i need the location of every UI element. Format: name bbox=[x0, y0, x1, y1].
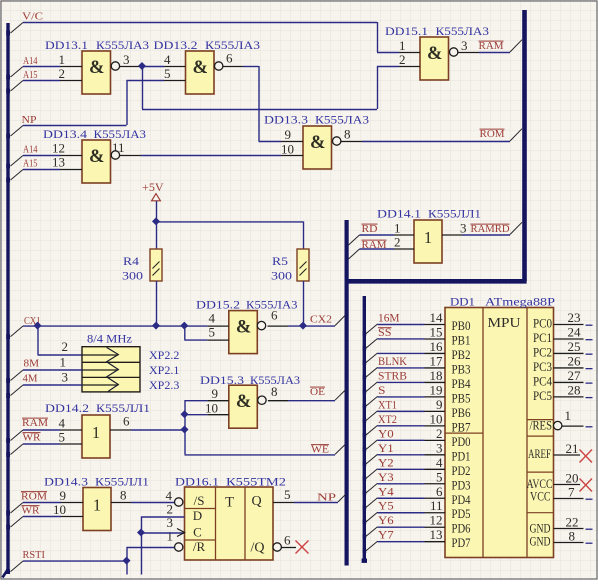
junction DD14.2 output node bbox=[181, 426, 189, 434]
junction CX2 at R5 bbox=[299, 322, 307, 330]
svg-text:4: 4 bbox=[59, 416, 66, 431]
wire net A15 to DD13.4 pin13 bbox=[11, 170, 61, 181]
bus: right memory-control bus bbox=[347, 10, 527, 566]
svg-text:17: 17 bbox=[430, 353, 444, 368]
svg-text:К555ЛА3: К555ЛА3 bbox=[96, 38, 149, 52]
svg-text:22: 22 bbox=[566, 515, 579, 530]
svg-text:28: 28 bbox=[568, 382, 581, 397]
svg-text:10: 10 bbox=[281, 142, 294, 157]
svg-text:D: D bbox=[193, 508, 202, 523]
inversion bubble DD13.1 output bbox=[111, 62, 119, 70]
wire net DD13.2 output to DD13.3 pin9 bbox=[243, 66, 281, 142]
gate DD13.2 (K555LA3 NAND) bbox=[186, 51, 215, 94]
wire net A14 bbox=[11, 67, 61, 78]
svg-text:STRB: STRB bbox=[378, 370, 407, 382]
wire net CX1 bbox=[11, 326, 208, 355]
wire MCU pin 8 GND bbox=[554, 542, 593, 545]
inversion bubble DD15.3 output bbox=[258, 396, 266, 404]
svg-text:15: 15 bbox=[430, 324, 443, 339]
svg-text:2: 2 bbox=[59, 66, 66, 81]
pin stubs DD14.1 bbox=[394, 235, 462, 249]
svg-text:DD15.1: DD15.1 bbox=[385, 24, 428, 38]
wire net RSTI to DD16.1 /R bbox=[11, 547, 175, 575]
svg-text:ROM: ROM bbox=[480, 128, 505, 140]
svg-text:3: 3 bbox=[460, 221, 467, 236]
inversion bubble DD13.3 output bbox=[333, 137, 341, 145]
svg-text:/S: /S bbox=[194, 493, 205, 508]
svg-text:Y7: Y7 bbox=[378, 530, 394, 542]
resistor R5 bbox=[297, 249, 309, 281]
svg-text:16M: 16M bbox=[378, 313, 400, 325]
svg-text:AREF: AREF bbox=[528, 446, 551, 461]
wire net RAMRD bbox=[462, 222, 522, 235]
pin numbers DD15.2 bbox=[209, 308, 279, 340]
svg-text:XT2: XT2 bbox=[378, 414, 397, 426]
pin numbers DD13.3 bbox=[281, 127, 351, 157]
pin stubs DD13.3 bbox=[281, 142, 362, 156]
svg-text:1: 1 bbox=[92, 423, 100, 442]
wire MCU pin 21 AREF bbox=[554, 454, 581, 456]
svg-text:К555ЛА3: К555ЛА3 bbox=[94, 127, 147, 141]
MCU left pin wires and bus entries bbox=[366, 324, 445, 551]
svg-text:3: 3 bbox=[436, 440, 443, 455]
junction D-C tie bbox=[137, 529, 145, 537]
wire net from DD13.1 pin3 to DD13.2 pin4 and DD15.1 pin2 bbox=[142, 66, 399, 110]
svg-text:DD13.3: DD13.3 bbox=[264, 113, 308, 127]
gate DD13.3 (K555LA3 NAND) bbox=[303, 126, 332, 169]
svg-text:R5: R5 bbox=[272, 254, 288, 268]
wire MCU pin 1 /RES bbox=[562, 425, 593, 428]
svg-text:PB0: PB0 bbox=[452, 318, 471, 333]
svg-text:NP: NP bbox=[22, 114, 37, 126]
inversion bubble DD15.1 output bbox=[450, 48, 458, 56]
inversion bubble DD13.2 output bbox=[215, 62, 223, 70]
wire net WR to DD14.2 pin5 bbox=[11, 444, 61, 455]
svg-text:6: 6 bbox=[436, 484, 443, 499]
wire net NP from DD16.1 Q output bbox=[273, 494, 346, 502]
svg-text:DD13.4: DD13.4 bbox=[43, 127, 87, 141]
MCU DD1 ATmega88P body bbox=[445, 308, 554, 558]
svg-text:PD7: PD7 bbox=[452, 535, 471, 550]
svg-text:Y1: Y1 bbox=[378, 443, 394, 455]
pin stubs DD13.2 bbox=[164, 67, 243, 81]
svg-text:11: 11 bbox=[430, 498, 443, 513]
svg-text:26: 26 bbox=[568, 353, 582, 368]
junction CX1 at DD15.2 pin5 drop bbox=[180, 322, 188, 330]
svg-text:&: & bbox=[236, 317, 251, 337]
svg-text:DD14.2: DD14.2 bbox=[45, 401, 89, 415]
svg-text:8/4 MHz: 8/4 MHz bbox=[87, 332, 132, 346]
svg-text:&: & bbox=[310, 133, 325, 153]
inversion bubble DD16.1 /Q output bbox=[273, 543, 281, 551]
wire net NP to DD13.2 pin5 bbox=[11, 80, 165, 136]
svg-text:8M: 8M bbox=[24, 358, 40, 370]
inversion bubble DD15.2 output bbox=[257, 321, 265, 329]
pin numbers DD15.1 bbox=[399, 38, 468, 67]
svg-text:К555ЛА3: К555ЛА3 bbox=[315, 113, 369, 127]
svg-text:/RES: /RES bbox=[530, 418, 553, 433]
MCU left net labels 16M SS BLNK STRB S XT1 XT2 Y0-Y7 bbox=[378, 313, 408, 542]
svg-text:DD13.2: DD13.2 bbox=[154, 38, 198, 52]
wire net CX2 bbox=[288, 316, 345, 327]
pin numbers DD16.1 bbox=[166, 487, 292, 548]
svg-text:DD14.1: DD14.1 bbox=[377, 207, 421, 221]
svg-text:PC3: PC3 bbox=[533, 359, 552, 374]
svg-text:1: 1 bbox=[424, 228, 432, 247]
svg-text:5: 5 bbox=[436, 469, 443, 484]
svg-text:6: 6 bbox=[123, 414, 130, 429]
svg-text:4: 4 bbox=[209, 311, 216, 326]
svg-text:Q: Q bbox=[251, 494, 261, 509]
svg-text:PD2: PD2 bbox=[452, 463, 471, 478]
junction +5V at R4 top bbox=[152, 217, 160, 225]
svg-text:Y2: Y2 bbox=[378, 457, 394, 469]
svg-text:&: & bbox=[236, 392, 251, 412]
svg-text:PC0: PC0 bbox=[533, 316, 552, 331]
svg-text:14: 14 bbox=[430, 310, 444, 325]
svg-text:NP: NP bbox=[317, 492, 336, 504]
svg-text:2: 2 bbox=[394, 235, 401, 250]
svg-text:К555ТМ2: К555ТМ2 bbox=[226, 475, 286, 489]
pin numbers DD13.4 bbox=[52, 140, 125, 170]
svg-text:6: 6 bbox=[271, 308, 278, 323]
svg-text:PC1: PC1 bbox=[533, 330, 552, 345]
svg-text:PB7: PB7 bbox=[452, 419, 471, 434]
gate DD14.1 (K555LL1 OR) bbox=[414, 220, 442, 263]
pin stubs DD14.2 bbox=[60, 430, 131, 444]
svg-text:PD4: PD4 bbox=[452, 492, 471, 507]
svg-text:3: 3 bbox=[461, 38, 468, 53]
svg-text:4: 4 bbox=[164, 52, 171, 67]
wire net DD13.4 output to DD13.3 pin10 bbox=[141, 155, 281, 157]
wire MCU pin 20 AVCC bbox=[554, 484, 581, 486]
wire R5 bottom to CX2 node bbox=[303, 281, 305, 326]
svg-text:ROM: ROM bbox=[21, 491, 47, 503]
gate DD15.2 (K555LA3 NAND) bbox=[229, 311, 257, 354]
svg-text:1: 1 bbox=[394, 221, 401, 236]
svg-text:20: 20 bbox=[566, 471, 579, 486]
svg-text:PD6: PD6 bbox=[452, 521, 471, 536]
svg-text:DD13.1: DD13.1 bbox=[45, 38, 88, 52]
svg-text:К555ЛЛ1: К555ЛЛ1 bbox=[428, 207, 481, 221]
power symbol +5V bbox=[142, 182, 164, 201]
pin numbers XP2 bbox=[60, 339, 69, 385]
pin numbers DD14.1 bbox=[394, 221, 467, 250]
svg-text:27: 27 bbox=[568, 368, 582, 383]
pin numbers DD13.1 bbox=[59, 52, 130, 81]
svg-text:PB6: PB6 bbox=[452, 405, 471, 420]
svg-text:300: 300 bbox=[271, 269, 292, 283]
resistor R4 bbox=[150, 249, 162, 281]
pin stubs DD15.2 bbox=[207, 326, 288, 340]
svg-text:9: 9 bbox=[436, 397, 443, 412]
svg-text:&: & bbox=[427, 44, 442, 64]
svg-text:4M: 4M bbox=[23, 373, 38, 385]
svg-text:PD0: PD0 bbox=[452, 434, 471, 449]
svg-text:XP2.1: XP2.1 bbox=[149, 363, 179, 377]
svg-text:25: 25 bbox=[568, 339, 581, 354]
svg-text:PB2: PB2 bbox=[452, 347, 471, 362]
wire MCU pin 7 VCC bbox=[554, 498, 593, 501]
bus: MCU port bus bbox=[362, 296, 367, 563]
svg-text:К555ЛА3: К555ЛА3 bbox=[205, 38, 260, 52]
svg-text:300: 300 bbox=[122, 269, 143, 283]
junction RSTI at /R drop bbox=[123, 557, 131, 565]
pin stubs DD13.1 bbox=[60, 67, 141, 81]
svg-text:Y0: Y0 bbox=[378, 428, 394, 440]
MCU right pin names /RES AREF AVCC VCC GND GND bbox=[527, 418, 553, 549]
svg-text:C: C bbox=[193, 525, 202, 540]
connector XP2 8/4 MHz block bbox=[82, 347, 140, 392]
svg-text:S: S bbox=[378, 385, 386, 397]
svg-text:1: 1 bbox=[399, 38, 406, 53]
svg-text:WR: WR bbox=[22, 505, 41, 517]
svg-text:Y3: Y3 bbox=[378, 472, 394, 484]
svg-text:1: 1 bbox=[565, 408, 572, 423]
svg-text:23: 23 bbox=[568, 310, 581, 325]
pin stubs DD15.3 bbox=[207, 401, 288, 415]
svg-text:V/C: V/C bbox=[22, 11, 43, 23]
junction at DD13.1 output node bbox=[138, 62, 146, 70]
svg-text:RAM: RAM bbox=[22, 417, 48, 429]
svg-text:10: 10 bbox=[205, 401, 218, 416]
gate DD14.3 (K555LL1 OR) bbox=[83, 488, 111, 531]
MCU right pin names PC0-PC5 bbox=[533, 316, 552, 403]
svg-text:A14: A14 bbox=[23, 144, 38, 156]
svg-text:5: 5 bbox=[164, 66, 171, 81]
pin numbers DD14.3 bbox=[53, 488, 127, 518]
svg-text:RAMRD: RAMRD bbox=[471, 223, 510, 235]
wire net ROM to DD14.3 pin9 bbox=[11, 503, 62, 514]
svg-text:1: 1 bbox=[60, 355, 67, 370]
gate DD13.4 (K555LA3 NAND) bbox=[82, 140, 111, 183]
svg-text:&: & bbox=[89, 58, 104, 78]
pin labels XP2.2 XP2.1 XP2.3 bbox=[149, 348, 179, 392]
svg-text:A14: A14 bbox=[23, 55, 38, 67]
pin numbers DD14.2 bbox=[59, 414, 131, 445]
no-connect cross at AVCC bbox=[580, 479, 593, 492]
svg-text:5: 5 bbox=[59, 430, 66, 445]
wire net OE bbox=[288, 390, 345, 400]
wire net A15 bbox=[11, 81, 61, 92]
svg-text:12: 12 bbox=[52, 141, 65, 156]
junction DD15.3 pin10 tie bbox=[181, 410, 189, 418]
svg-text:RD: RD bbox=[362, 223, 378, 235]
svg-text:8: 8 bbox=[569, 529, 576, 544]
pin stubs DD14.3 bbox=[61, 503, 131, 517]
svg-text:1: 1 bbox=[93, 496, 101, 515]
svg-text:&: & bbox=[89, 147, 104, 167]
wire net ROM output bbox=[362, 129, 522, 142]
svg-text:DD14.3: DD14.3 bbox=[44, 475, 88, 489]
svg-text:PC5: PC5 bbox=[533, 388, 552, 403]
svg-text:VCC: VCC bbox=[530, 489, 551, 504]
svg-text:DD16.1: DD16.1 bbox=[175, 475, 219, 489]
svg-text:24: 24 bbox=[568, 324, 582, 339]
svg-text:WE: WE bbox=[311, 444, 329, 456]
pin stubs DD13.4 bbox=[60, 156, 141, 170]
MCU left pin names PB0-PB7 PD0-PD7 bbox=[452, 318, 471, 550]
svg-text:Y5: Y5 bbox=[378, 501, 394, 513]
svg-text:21: 21 bbox=[566, 441, 579, 456]
wire net RD to DD14.1 pin1 bbox=[349, 235, 395, 245]
svg-text:3: 3 bbox=[62, 370, 69, 385]
wire net A14 to DD13.4 pin12 bbox=[11, 156, 61, 167]
svg-text:PB3: PB3 bbox=[452, 361, 471, 376]
inversion bubble MCU /RES pin1 bbox=[554, 421, 562, 429]
wire net DD14.3 out to DD16.1 /S bbox=[131, 502, 174, 504]
svg-text:6: 6 bbox=[226, 51, 233, 66]
wire net WR to DD14.3 pin10 bbox=[11, 517, 62, 528]
wire net 8M bbox=[11, 370, 83, 381]
svg-text:RAM: RAM bbox=[479, 40, 504, 52]
junction CX1 at XP2 drop bbox=[34, 322, 42, 330]
svg-text:Y4: Y4 bbox=[378, 486, 394, 498]
svg-text:7: 7 bbox=[568, 485, 575, 500]
inversion bubble DD16.1 /S input bbox=[175, 498, 183, 506]
svg-text:&: & bbox=[193, 58, 208, 78]
wire net V/C bbox=[11, 22, 400, 53]
svg-text:OE: OE bbox=[310, 386, 325, 398]
svg-text:2: 2 bbox=[399, 52, 406, 67]
svg-text:9: 9 bbox=[60, 488, 67, 503]
svg-text:ATmega88P: ATmega88P bbox=[485, 295, 555, 309]
svg-text:BLNK: BLNK bbox=[378, 356, 408, 368]
no-connect cross at AREF bbox=[580, 450, 593, 463]
MCU left pin numbers bbox=[430, 310, 444, 542]
svg-text:8: 8 bbox=[120, 488, 127, 503]
svg-text:CX2: CX2 bbox=[310, 314, 332, 326]
svg-text:R4: R4 bbox=[123, 254, 139, 268]
pin numbers DD15.3 bbox=[205, 384, 278, 416]
svg-text:5: 5 bbox=[284, 487, 291, 502]
svg-text:PD1: PD1 bbox=[452, 448, 471, 463]
svg-text:/Q: /Q bbox=[251, 540, 265, 555]
svg-text:1: 1 bbox=[167, 529, 174, 544]
wire net RAM output bbox=[479, 40, 522, 53]
svg-text:RSTI: RSTI bbox=[23, 549, 46, 561]
svg-text:9: 9 bbox=[285, 127, 292, 142]
wire R4 bottom to CX1 node bbox=[156, 281, 158, 326]
svg-text:WR: WR bbox=[23, 432, 42, 444]
pin numbers DD13.2 bbox=[164, 51, 233, 82]
svg-text:T: T bbox=[225, 494, 234, 510]
svg-text:/R: /R bbox=[193, 539, 206, 554]
wire net DD14.2 out to DD15.3 inputs and WE bbox=[131, 400, 345, 455]
svg-text:A15: A15 bbox=[23, 69, 38, 81]
svg-text:PD3: PD3 bbox=[452, 477, 471, 492]
svg-text:PC4: PC4 bbox=[533, 373, 552, 388]
svg-text:Y6: Y6 bbox=[378, 515, 394, 527]
gate DD15.3 (K555LA3 NAND) bbox=[229, 385, 257, 428]
pin stubs DD15.1 bbox=[399, 53, 479, 67]
svg-text:GND: GND bbox=[530, 534, 551, 549]
MCU right PC pin wires bbox=[554, 325, 593, 398]
svg-text:2: 2 bbox=[436, 426, 443, 441]
inversion bubble DD13.4 output bbox=[111, 151, 119, 159]
svg-text:XP2.3: XP2.3 bbox=[149, 378, 179, 392]
gate DD13.1 (K555LA3 NAND) bbox=[82, 51, 111, 94]
pin stub DD16.1 /Q bbox=[281, 547, 296, 549]
clock arrow DD16.1 C input bbox=[177, 529, 185, 537]
svg-text:6: 6 bbox=[284, 533, 291, 548]
svg-text:XP2.2: XP2.2 bbox=[149, 348, 179, 362]
no-connect cross at DD16.1 /Q bbox=[296, 541, 309, 554]
svg-text:PB4: PB4 bbox=[452, 376, 471, 391]
svg-text:К555ЛЛ1: К555ЛЛ1 bbox=[95, 475, 149, 489]
svg-text:A15: A15 bbox=[23, 158, 38, 170]
svg-text:10: 10 bbox=[430, 411, 443, 426]
svg-text:3: 3 bbox=[123, 52, 130, 67]
svg-text:19: 19 bbox=[430, 382, 443, 397]
bus: left address/control bus bbox=[3, 23, 11, 578]
svg-text:16: 16 bbox=[430, 339, 444, 354]
svg-text:MPU: MPU bbox=[488, 315, 521, 330]
flip-flop DD16.1 (K555TM2 D-trigger) bbox=[185, 487, 274, 560]
wire net RAM to DD14.2 pin4 bbox=[11, 430, 61, 441]
svg-text:DD15.3: DD15.3 bbox=[200, 373, 244, 387]
svg-text:18: 18 bbox=[430, 368, 443, 383]
wire MCU pin 22 GND bbox=[554, 528, 593, 531]
svg-text:+5V: +5V bbox=[142, 182, 164, 194]
svg-text:13: 13 bbox=[52, 155, 65, 170]
svg-text:2: 2 bbox=[62, 339, 69, 354]
svg-text:9: 9 bbox=[212, 386, 219, 401]
wire net D input of DD16.1 bbox=[141, 517, 185, 575]
svg-text:DD1: DD1 bbox=[450, 295, 475, 309]
svg-text:10: 10 bbox=[53, 502, 66, 517]
svg-text:8: 8 bbox=[344, 127, 351, 142]
svg-text:1: 1 bbox=[59, 52, 66, 67]
svg-text:13: 13 bbox=[430, 527, 443, 542]
inversion bubble DD16.1 /R input bbox=[175, 543, 183, 551]
svg-text:4: 4 bbox=[436, 455, 443, 470]
svg-text:12: 12 bbox=[430, 513, 443, 528]
svg-text:8: 8 bbox=[271, 384, 278, 399]
wire net 4M bbox=[11, 385, 83, 396]
junction CX1 at R4 bbox=[152, 322, 160, 330]
gate DD14.2 (K555LL1 OR) bbox=[82, 415, 110, 458]
svg-text:DD15.2: DD15.2 bbox=[196, 298, 240, 312]
svg-text:PC2: PC2 bbox=[533, 344, 552, 359]
svg-text:К555ЛА3: К555ЛА3 bbox=[436, 24, 490, 38]
MCU right PC pin numbers 23-28 bbox=[568, 310, 582, 397]
svg-text:XT1: XT1 bbox=[378, 399, 397, 411]
gate DD15.1 (K555LA3 NAND) bbox=[420, 37, 449, 80]
wire net +5V rail bbox=[156, 201, 304, 249]
svg-text:PB5: PB5 bbox=[452, 390, 471, 405]
svg-text:PD5: PD5 bbox=[452, 506, 471, 521]
svg-text:SS: SS bbox=[378, 327, 392, 339]
svg-text:PB1: PB1 bbox=[452, 332, 471, 347]
wire net RAM to DD14.1 pin2 bbox=[349, 249, 395, 259]
